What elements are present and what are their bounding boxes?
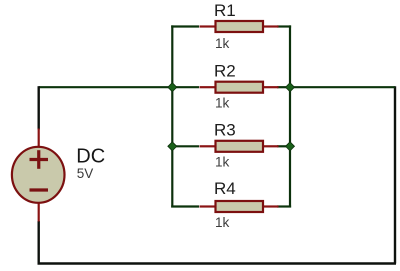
junction node D (right bus, R3 row) — [286, 142, 295, 151]
resistor R1 — [200, 1, 279, 51]
svg-text:1k: 1k — [215, 215, 230, 230]
DC source V1 — [12, 129, 105, 222]
wire: R4 row left segment — [171, 205, 199, 207]
resistor R2 — [200, 62, 279, 111]
svg-text:DC: DC — [76, 146, 105, 168]
wire: R1 row left segment — [171, 25, 199, 27]
wire: top-right horizontal from right rail to node B — [290, 86, 395, 88]
wire: right rail vertical — [394, 86, 396, 263]
pin stub top — [38, 129, 40, 148]
wire: R2 row right segment — [277, 86, 290, 88]
wire: R4 row right segment — [277, 205, 291, 207]
wire: top-left horizontal from left rail to node A — [39, 86, 173, 88]
wire: bottom horizontal — [38, 262, 397, 264]
svg-text:1k: 1k — [215, 96, 230, 111]
junction node C (left bus, R3 row) — [168, 142, 177, 151]
wire: R3 row left segment — [172, 145, 199, 147]
plus sign — [30, 158, 49, 161]
pin stub bottom — [38, 203, 40, 222]
wire: left rail vertical upper (to DC source) — [38, 86, 40, 129]
wire: left parallel bus vertical — [171, 25, 173, 207]
body circle — [12, 147, 65, 203]
wire: R2 row left segment — [172, 86, 199, 88]
minus sign — [30, 188, 49, 191]
resistor R4 — [200, 179, 279, 230]
wire: right parallel bus vertical — [289, 25, 291, 207]
wire: R1 row right segment — [277, 25, 291, 27]
junction node B (right bus, R2 row) — [286, 83, 295, 92]
svg-text:5V: 5V — [77, 166, 94, 181]
svg-text:R2: R2 — [214, 62, 236, 81]
svg-text:R3: R3 — [214, 121, 236, 140]
svg-text:R1: R1 — [214, 1, 236, 20]
wire: left rail vertical lower (from DC source to bottom) — [38, 221, 40, 265]
junction node A (left bus, R2 row) — [168, 83, 177, 92]
svg-text:1k: 1k — [215, 155, 230, 170]
resistor R3 — [200, 121, 279, 170]
svg-text:1k: 1k — [215, 36, 230, 51]
svg-text:R4: R4 — [214, 179, 236, 198]
wire: R3 row right segment — [277, 145, 290, 147]
